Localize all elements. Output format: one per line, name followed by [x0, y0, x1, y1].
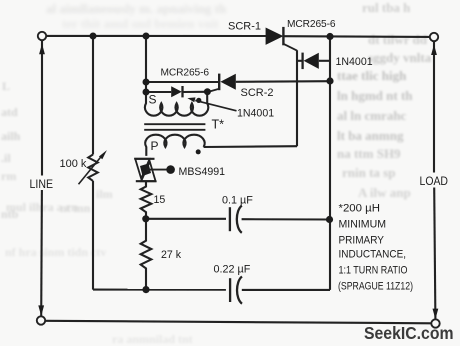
- svg-text:ailh: ailh: [1, 129, 21, 143]
- thyristor SCR-1 MCR265-6: [266, 28, 284, 45]
- svg-text:MCR265-6: MCR265-6: [161, 67, 210, 78]
- svg-text:27 k: 27 k: [161, 249, 182, 261]
- junction node: D1 anode / secondary left: [143, 89, 150, 96]
- junction node: 15 / 27k / 0.1uF wire: [142, 215, 149, 222]
- wire right inner vertical (x=330): [329, 36, 331, 290]
- svg-text:S: S: [149, 93, 157, 107]
- svg-text:al ln cmrahc: al ln cmrahc: [337, 108, 407, 123]
- wire SBS gate lead: [146, 169, 166, 171]
- leader arrow for 1N4001 label: [195, 100, 236, 110]
- svg-text:dt tilwr dd: dt tilwr dd: [368, 32, 428, 47]
- svg-text:A ilw anp: A ilw anp: [358, 185, 411, 200]
- svg-text:na ttm SH9: na ttm SH9: [337, 146, 401, 161]
- arrow up toward LOAD top terminal: [431, 44, 437, 55]
- wire right LOAD vertical lower: [434, 188, 435, 320]
- phasing dot primary: [196, 149, 201, 154]
- junction node: 0.1uF wire / inner vertical: [326, 216, 333, 223]
- thyristor SCR-2 MCR265-6: [220, 74, 235, 90]
- junction node: SCR-2 cathode wire: [143, 79, 150, 86]
- wire top rail left (LINE terminal to SCR-1 anode): [46, 35, 266, 37]
- svg-text:ter thit amd snd bemien voit: ter thit amd snd bemien voit: [62, 16, 220, 31]
- svg-text:MBS4991: MBS4991: [179, 166, 226, 178]
- svg-text:15: 15: [154, 194, 166, 206]
- svg-text:*200 µH: *200 µH: [339, 203, 381, 215]
- svg-text:L: L: [2, 79, 10, 93]
- svg-text:ttae tlic high: ttae tlic high: [337, 68, 407, 83]
- junction node: 27k bottom / inner rail: [142, 286, 149, 293]
- transformer T secondary winding S: [145, 92, 208, 116]
- phasing dot secondary: [196, 98, 201, 103]
- resistor R3 27k: [141, 219, 152, 290]
- svg-text:PRIMARY: PRIMARY: [339, 235, 385, 247]
- svg-text:rnin ta sp: rnin ta sp: [342, 165, 395, 180]
- wire SCR-2 cathode: [146, 81, 219, 83]
- svg-text:sggdy vnlta: sggdy vnlta: [368, 50, 432, 65]
- node bullet MBS4991: [166, 165, 175, 174]
- terminal LINE bottom: [37, 316, 45, 324]
- svg-text:MCR265-6: MCR265-6: [287, 19, 336, 30]
- junction node: D1 cathode / SCR-2 gate / secondary right: [204, 88, 211, 95]
- label LINE: [29, 176, 56, 191]
- wire D1 cathode to node: [183, 91, 205, 93]
- junction node: top rail / 100k branch: [90, 33, 97, 40]
- arrow down toward LINE bottom terminal: [38, 305, 44, 316]
- terminal LINE top: [38, 32, 46, 40]
- svg-text:nf hra sinm tidn ctv: nf hra sinm tidn ctv: [5, 245, 106, 259]
- wire bottom rail: [45, 321, 431, 324]
- svg-text:lt ba anmng: lt ba anmng: [337, 128, 404, 143]
- wire SCR-2 gate: [210, 89, 220, 92]
- svg-text:ilm: ilm: [96, 187, 113, 201]
- capacitor C2 0.22uF curved plate: [237, 277, 242, 304]
- transformer core: [144, 124, 205, 130]
- rheostat R 100k zigzag: [88, 155, 98, 181]
- svg-text:LOAD: LOAD: [420, 175, 449, 188]
- svg-text:nt mn: nt mn: [60, 201, 91, 215]
- wire gate net vertical (x=297): [296, 50, 298, 146]
- svg-text:INDUCTANCE,: INDUCTANCE,: [339, 249, 407, 261]
- svg-text:SCR-1: SCR-1: [228, 21, 261, 33]
- svg-text:1N4001: 1N4001: [336, 56, 373, 68]
- wire right LOAD vertical upper: [433, 41, 435, 172]
- svg-text:100 k: 100 k: [60, 158, 87, 170]
- svg-text:rul tba h: rul tba h: [362, 0, 411, 15]
- svg-text:LINE: LINE: [30, 178, 54, 191]
- wire 100k branch lower: [92, 181, 94, 290]
- diode D2 1N4001 (right): [297, 60, 302, 62]
- svg-text:0.22 µF: 0.22 µF: [214, 263, 251, 275]
- junction node: top rail / SCR branch: [143, 33, 150, 40]
- svg-text:SeekIC.com: SeekIC.com: [364, 323, 454, 343]
- svg-text:rm: rm: [1, 169, 16, 183]
- wire primary right to gate net: [204, 145, 297, 148]
- terminal LOAD top: [430, 33, 438, 41]
- svg-text:MINIMUM: MINIMUM: [339, 219, 387, 231]
- svg-text:(SPRAGUE 11Z12): (SPRAGUE 11Z12): [338, 281, 413, 293]
- wire SCR-2 anode: [236, 80, 329, 83]
- terminal LOAD bottom: [431, 319, 439, 327]
- wire left LINE vertical upper: [41, 40, 43, 176]
- arrow down toward LOAD bottom terminal: [433, 309, 439, 320]
- capacitor C1 0.1uF left plate: [229, 207, 231, 231]
- wire SCR branch vertical (x=146): [145, 36, 147, 92]
- svg-text:atd: atd: [1, 105, 18, 119]
- junction node: top rail / right inner vertical: [326, 33, 333, 40]
- wire 0.1uF right: [242, 218, 329, 220]
- transformer T primary winding P: [145, 135, 204, 156]
- svg-text:ln hgmd nt th: ln hgmd nt th: [337, 88, 413, 103]
- label LOAD: [419, 173, 450, 188]
- arrow up toward LINE top terminal: [39, 44, 45, 55]
- wire 100k branch from top rail: [92, 36, 94, 155]
- faint print bleed-through background (decorative): [46, 1, 227, 31]
- capacitor C1 0.1uF curved plate: [237, 206, 242, 233]
- SBS U1 MBS4991: [134, 158, 154, 160]
- wire inner bottom rail right: [242, 289, 330, 291]
- wire D2 anode to inner vertical: [319, 60, 329, 62]
- wire top rail right (SCR-1 cathode to LOAD terminal): [283, 35, 430, 38]
- diode D1 1N4001 (left): [146, 91, 171, 93]
- wire left LINE vertical lower: [40, 190, 43, 316]
- svg-text:0.1 µF: 0.1 µF: [222, 194, 253, 206]
- capacitor C2 0.22uF left plate: [229, 278, 231, 302]
- svg-text:ra anmnilad tnt: ra anmnilad tnt: [112, 332, 193, 346]
- svg-text:T*: T*: [212, 118, 225, 132]
- svg-text:1N4001: 1N4001: [237, 108, 274, 120]
- svg-text:SCR-2: SCR-2: [241, 87, 274, 99]
- wire inner bottom rail left: [93, 289, 226, 291]
- rheostat arrow: [79, 157, 101, 184]
- wire 0.1uF left: [146, 218, 226, 220]
- svg-text:.il: .il: [1, 151, 11, 165]
- svg-text:1:1 TURN RATIO: 1:1 TURN RATIO: [339, 265, 408, 277]
- wire SCR-1 gate: [283, 44, 297, 51]
- svg-text:al aimllaneously m. apnaiving: al aimllaneously m. apnaiving th: [46, 1, 227, 16]
- junction node: SCR-2 anode / inner vertical: [326, 77, 333, 84]
- resistor R2 15: [141, 182, 152, 219]
- svg-text:P: P: [151, 139, 159, 153]
